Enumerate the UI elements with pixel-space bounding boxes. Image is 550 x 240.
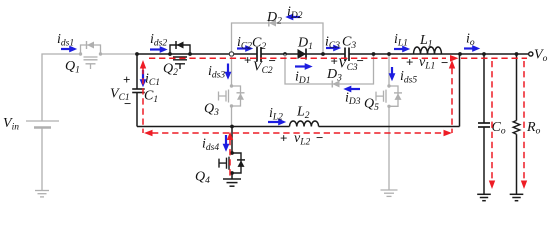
- svg-text:iD3: iD3: [345, 91, 361, 108]
- capacitor Co branch: [483, 54, 485, 194]
- svg-text:+: +: [244, 53, 251, 68]
- svg-text:Q4: Q4: [195, 170, 210, 187]
- capacitor C1 branch wire: [136, 54, 138, 127]
- current arrow i_D1: [295, 65, 305, 67]
- svg-text:ids2: ids2: [150, 32, 167, 49]
- resistor Ro zigzag: [513, 121, 520, 135]
- node: open circle junction Q3/D2 loop: [229, 52, 233, 56]
- svg-text:vL1: vL1: [419, 55, 435, 72]
- node A (junction Vin/Q2/C1): [135, 52, 139, 56]
- svg-text:iC2: iC2: [237, 35, 252, 52]
- current arrow i_L2: [268, 121, 279, 123]
- capacitor C1: [132, 88, 145, 90]
- svg-text:−: −: [357, 53, 364, 68]
- red dashed current path: Co return: [491, 61, 493, 181]
- svg-text:−: −: [269, 53, 276, 68]
- svg-text:C1: C1: [144, 89, 158, 106]
- wire Q5 branch (gray): [388, 54, 390, 190]
- diode D3 (gray): [332, 81, 339, 88]
- output terminal Vo: [529, 52, 533, 56]
- svg-text:ids1: ids1: [57, 32, 74, 49]
- svg-text:L2: L2: [296, 105, 310, 122]
- svg-text:D1: D1: [297, 36, 313, 53]
- svg-text:Q5: Q5: [364, 97, 379, 114]
- current arrow i_ds1: [61, 48, 70, 50]
- current arrow i_ds3: [227, 64, 229, 73]
- svg-text:ids5: ids5: [400, 69, 417, 86]
- node: junction D3/C3/L1: [372, 52, 376, 56]
- svg-text:Vo: Vo: [534, 48, 548, 65]
- capacitor C3: [344, 48, 346, 62]
- transistor Q5 (gray, vertical): [376, 86, 402, 106]
- current arrow i_ds2: [150, 48, 160, 50]
- red dashed current path: C1 branch (up arrow): [142, 68, 144, 133]
- red dashed current path: top line: [149, 57, 446, 59]
- wire Q3 branch (gray): [231, 56, 233, 126]
- ground (input, gray): [35, 191, 49, 197]
- svg-text:ids3: ids3: [208, 64, 225, 81]
- ground (Ro): [510, 194, 524, 200]
- wire: input left loop (gray): [42, 54, 137, 121]
- svg-text:iD2: iD2: [287, 5, 303, 22]
- voltage source Vin: [26, 121, 59, 191]
- svg-text:ids4: ids4: [202, 137, 219, 154]
- svg-text:+: +: [406, 55, 413, 70]
- current arrow i_D3: [351, 88, 360, 90]
- svg-text:C2: C2: [252, 36, 266, 53]
- ground (Co): [477, 194, 491, 200]
- svg-text:Q1: Q1: [65, 59, 80, 76]
- ground (Q5, gray): [381, 190, 398, 196]
- svg-text:io: io: [466, 32, 475, 49]
- svg-text:−: −: [441, 55, 448, 70]
- current arrow i_o: [464, 47, 473, 49]
- current arrow i_ds5: [391, 67, 393, 74]
- svg-text:D2: D2: [266, 10, 282, 27]
- svg-text:iL1: iL1: [394, 32, 408, 49]
- node: junction L1/output loop: [458, 52, 462, 56]
- wire bottom line: [137, 126, 460, 128]
- transistor Q3 (gray, vertical): [219, 86, 245, 106]
- red dashed current path: right riser: [451, 68, 453, 133]
- svg-text:iC3: iC3: [325, 35, 340, 52]
- node: junction C2/D1/D3 branch: [283, 52, 287, 56]
- svg-text:L1: L1: [419, 33, 433, 50]
- transistor Q2: [170, 41, 190, 69]
- current arrow i_C1: [142, 70, 144, 80]
- svg-text:Vin: Vin: [3, 116, 19, 133]
- svg-text:iC1: iC1: [145, 72, 160, 89]
- resistor Ro branch: [516, 54, 518, 194]
- node: junction Q3/Q4/bottom line: [230, 125, 234, 129]
- diode D1: [298, 49, 307, 59]
- current arrow i_L1: [394, 48, 403, 50]
- svg-text:Q3: Q3: [204, 102, 219, 119]
- current arrow i_C2: [237, 47, 246, 49]
- node: junction Q5/top line: [387, 52, 391, 56]
- red dashed current path: Q4 branch (up arrow into node): [229, 139, 231, 177]
- svg-text:−: −: [124, 96, 131, 111]
- transistor Q1 (gray): [81, 41, 101, 69]
- wire Q4 branch: [231, 127, 233, 180]
- inductor L1: [414, 47, 442, 54]
- diode D2 (gray): [269, 20, 276, 27]
- inductor L2: [290, 121, 319, 127]
- red dashed current path: Ro return: [523, 61, 525, 181]
- transistor Q4 (vertical): [219, 153, 245, 173]
- red dashed current path: bottom line: [152, 132, 443, 134]
- current arrow i_ds4: [225, 135, 227, 144]
- wire right loop vertical: [459, 54, 461, 127]
- capacitor Co: [478, 122, 490, 124]
- node: junction D1/C3/D2 loop: [321, 52, 325, 56]
- svg-text:C3: C3: [342, 35, 356, 52]
- current arrow i_D2: [293, 16, 300, 18]
- current arrow i_C3: [326, 47, 334, 49]
- svg-text:Co: Co: [492, 120, 506, 137]
- svg-text:iL2: iL2: [269, 106, 283, 123]
- D2 loop wire (gray): [232, 23, 324, 54]
- D3 branch wire (gray): [285, 54, 374, 84]
- svg-text:+: +: [123, 72, 130, 87]
- capacitor C2: [256, 47, 258, 62]
- svg-text:Ro: Ro: [526, 120, 541, 137]
- main top wire (black): [137, 53, 529, 55]
- ground (Q4): [223, 179, 241, 186]
